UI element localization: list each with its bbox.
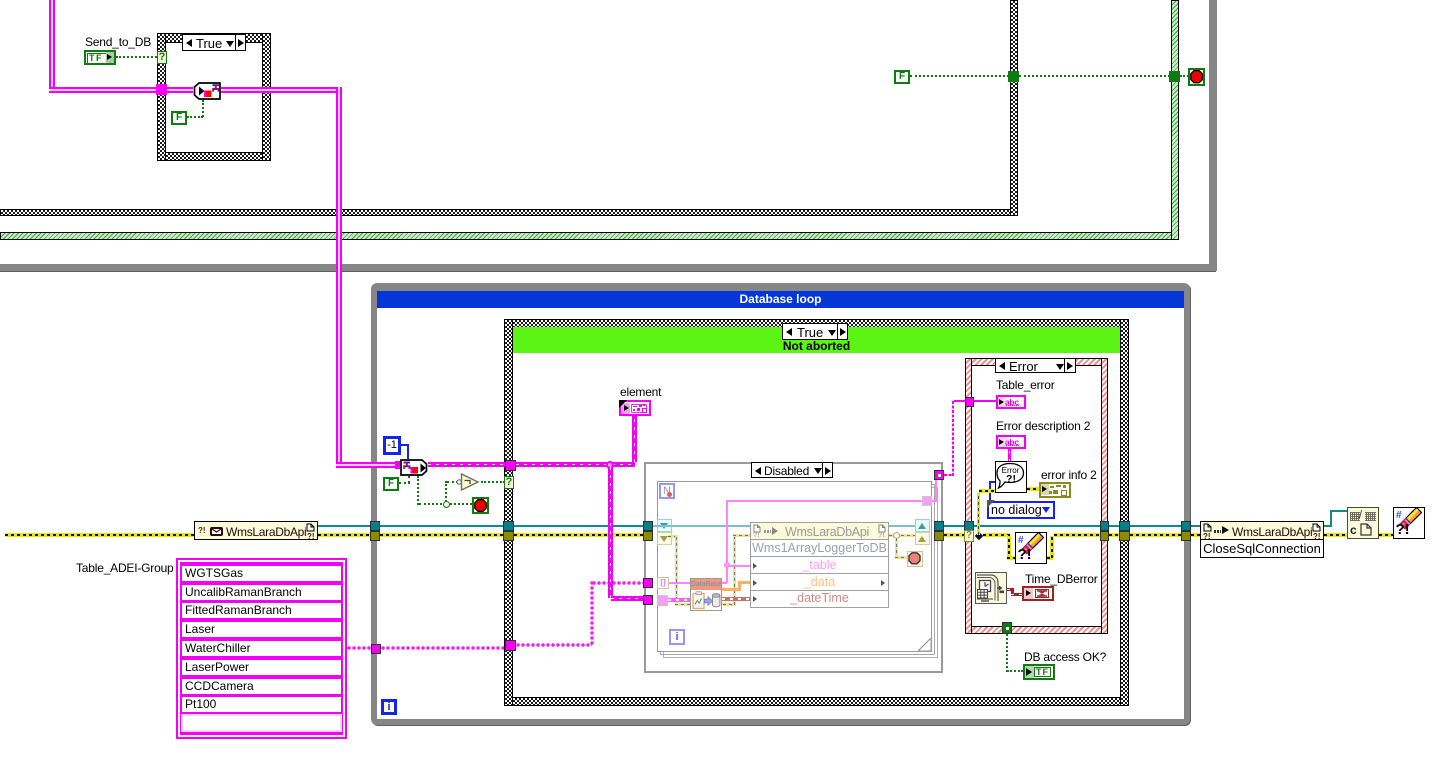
while loop Database loop border — [371, 283, 1190, 725]
label DB access OK? — [1024, 651, 1106, 663]
wire: yellow junction right, dips under clear errors — [983, 533, 1010, 537]
indicator Table_error (string abc) — [996, 395, 1026, 409]
indicator error info 2 (error cluster) — [1039, 482, 1071, 498]
wire: error cluster node to loop — [318, 533, 371, 537]
wire: queue refnum vertical down to database loop — [336, 87, 342, 468]
wire: string array dotted out of array — [347, 646, 372, 650]
tunnel: green on outer case border — [1008, 71, 1019, 82]
wire: teal loop->close node — [1191, 525, 1200, 527]
wire: green dotted to stop indicator — [450, 503, 472, 505]
wire: teal connection out of node — [318, 525, 371, 527]
indicator Time_DBerror (timestamp) — [1022, 586, 1054, 601]
iteration terminal i (disabled) — [669, 629, 685, 645]
array row UncalibRamanBranch — [182, 585, 341, 600]
label Table_error — [996, 379, 1055, 391]
wire: pale error down to stop indicator — [895, 538, 898, 559]
pass tunnel pink on inner frame — [657, 595, 668, 606]
array row WaterChiller — [182, 641, 341, 656]
junction pale yellow — [893, 532, 900, 539]
svg-text:?!: ?! — [1006, 473, 1016, 485]
wire: wavy table string array to icon — [669, 582, 690, 584]
case border top — [504, 319, 1129, 328]
wire: green dotted to stop terminal — [1180, 75, 1189, 77]
wire: green dotted F to icon — [399, 482, 410, 484]
array row Pt100 — [182, 697, 341, 712]
wire: yellow loop->close node — [1191, 533, 1200, 537]
wire: element cluster up to indicator — [632, 416, 637, 462]
tunnel: olive case right — [1119, 531, 1130, 541]
tunnel: queue refnum into small case — [156, 84, 167, 95]
error border right — [1101, 358, 1108, 634]
wire: maroon time to indicator — [1007, 588, 1014, 591]
disable selector label Disabled — [751, 462, 833, 478]
error selector terminal ? — [964, 530, 974, 542]
release queue VI icon — [193, 82, 221, 100]
iteration terminal i — [381, 699, 397, 715]
wire: salmon dateTime to subVI — [722, 597, 750, 601]
enum constant no dialog — [987, 501, 1055, 519]
node WmsLaraDbApi (open connection) — [194, 521, 318, 540]
wire: element cluster horizontal — [516, 462, 635, 467]
DataBase write icon — [690, 578, 722, 611]
boolean constant F (dequeue) — [383, 477, 399, 491]
boolean constant F (top-left case) — [171, 111, 187, 125]
wire: queue refnum tunnel to icon — [167, 87, 193, 93]
indicator element (cluster) — [619, 400, 651, 416]
wire: green dotted up to NOT gate — [445, 481, 447, 502]
wire: yellow up from junction — [977, 493, 980, 535]
error selector label — [995, 358, 1076, 373]
pink tunnel on inner frame right — [922, 496, 932, 506]
tunnel: green bottom of error struct — [1002, 622, 1012, 634]
array row CCDCamera — [182, 679, 341, 694]
wire: error cluster from left edge — [5, 533, 194, 537]
case border right — [1120, 319, 1129, 706]
wire: green dotted to case tunnel — [910, 75, 1009, 77]
green banner Not aborted — [513, 327, 1120, 353]
wire: element cluster to disabled structure — [611, 596, 645, 601]
tunnel: teal on loop left border — [370, 521, 380, 531]
green hatched loop bottom border — [0, 232, 1179, 240]
tunnel: teal case right — [1119, 521, 1130, 531]
case selector label True — [182, 34, 246, 51]
wire: green dotted case to loop tunnel — [1019, 75, 1170, 77]
junction pink — [724, 562, 730, 568]
svg-text:?!: ?! — [1018, 546, 1032, 562]
tunnel: magenta table_error on error border — [965, 397, 974, 407]
wire: element cluster out of dequeue — [428, 462, 506, 467]
indicator DB access OK? (TF) — [1023, 664, 1055, 680]
indexing tunnel [] on inner frame — [657, 577, 669, 589]
tunnel: olive on case left — [503, 531, 514, 541]
svg-text:?!: ?! — [1396, 521, 1410, 537]
tunnel: teal loop right — [1181, 521, 1191, 531]
wire: yellow handler to error info 2 — [1027, 487, 1039, 491]
Database loop title bar — [377, 291, 1184, 308]
junction green — [443, 501, 450, 508]
wire: pale error right of subVI — [889, 534, 916, 537]
array row Laser — [182, 622, 341, 637]
wire: magenta table_error out of disabled — [944, 474, 954, 476]
tunnel: green on green loop border — [1169, 71, 1180, 82]
wire: yellow free->clear errors — [1379, 533, 1393, 537]
wire: blue enum to handler — [989, 481, 995, 483]
pass tunnel teal up-arrow (right) — [915, 519, 930, 532]
tunnel: olive loop right — [1181, 531, 1191, 541]
label Time_DBerror — [1025, 573, 1098, 585]
outer case structure right border — [1010, 0, 1018, 216]
label Error description 2 — [996, 420, 1090, 432]
inner disabled frame (stacked) — [663, 487, 938, 658]
pass tunnel olive up-arrow (right) — [915, 532, 930, 545]
wire: yellow close->free — [1324, 533, 1347, 537]
wire: string array dotted inside case — [516, 643, 592, 647]
wire: wavy along top of subVI — [728, 500, 924, 502]
case selector terminal ? — [157, 51, 167, 64]
tunnel: string array (magenta) — [643, 578, 653, 588]
wire: teal close->free — [1324, 525, 1332, 527]
tunnel: olive on loop left border — [370, 531, 380, 541]
tunnel: teal on case left — [503, 521, 514, 531]
wire: wavy to _table — [728, 565, 750, 567]
wire: green dotted F to icon — [187, 116, 203, 118]
wire: pale teal right of subVI — [889, 525, 916, 527]
wire: teal case to disabled — [514, 525, 644, 527]
tunnel: teal on error border left — [964, 521, 974, 531]
pass tunnel teal arrow — [657, 519, 672, 532]
tunnel: olive disabled right — [934, 531, 944, 541]
corner fold on enum — [987, 500, 995, 508]
NOT gate — [455, 472, 481, 492]
label element — [620, 386, 661, 398]
grey outer loop bottom border — [0, 264, 1216, 272]
tunnel: olive error right — [1100, 531, 1109, 541]
error border bottom — [965, 626, 1108, 634]
wire: pale error around DataBase icon — [668, 535, 678, 538]
tunnel: teal disabled right — [934, 521, 944, 531]
tunnel: olive — [643, 531, 653, 541]
wire: green dotted TF to selector — [116, 56, 157, 58]
loop count terminal N — [659, 483, 675, 499]
clear errors VI icon (in error case) — [1015, 532, 1047, 564]
wire: pink wavy to outer tunnel — [932, 500, 938, 502]
array row empty (dimmed) — [181, 714, 342, 732]
wire: teal case->loop — [1130, 525, 1182, 527]
wire: queue refnum out of icon — [221, 87, 342, 93]
dequeue element VI icon — [400, 459, 428, 476]
tunnel: element cluster into case — [505, 460, 516, 471]
wire: magenta string down to error handler — [1008, 449, 1011, 462]
error border left — [965, 358, 972, 634]
wire: pale teal across disabled — [653, 525, 750, 527]
tunnel: magenta with dot (table out) — [934, 470, 944, 480]
svg-text:#: # — [1396, 510, 1402, 521]
label CloseSqlConnection — [1200, 539, 1324, 558]
wire: queue refnum horizontal into case — [49, 87, 157, 93]
tunnel: element cluster (magenta) — [643, 595, 653, 605]
array row WGTSGas — [182, 566, 341, 581]
stop indicator (aborted) — [472, 497, 489, 514]
free SQL object icon — [1347, 507, 1379, 539]
disable structure outer border — [644, 462, 943, 673]
wire: teal to case — [380, 525, 504, 527]
pass tunnel olive arrow — [657, 532, 672, 545]
stop indicator (error occurred) — [907, 551, 923, 567]
array row FittedRamanBranch — [182, 603, 341, 618]
wire: element cluster down — [608, 467, 613, 598]
wire: error to case — [380, 533, 504, 537]
error border top — [965, 358, 1108, 366]
numeric constant -1 — [383, 436, 401, 455]
junction magenta ring — [606, 461, 614, 469]
case selector label True — [782, 323, 848, 340]
wire: yellow case->loop — [1130, 533, 1182, 537]
wire: green dotted down to TF — [1006, 634, 1008, 672]
wire: orange data to subVI — [722, 588, 741, 591]
wire: green dotted NOT to case selector — [481, 481, 505, 483]
tunnel: teal — [643, 521, 653, 531]
array row LaserPower — [182, 660, 341, 675]
case border bottom — [504, 697, 1129, 706]
boolean constant F (top right) — [894, 70, 910, 84]
tunnel: string array into case — [505, 640, 516, 651]
label error info 2 — [1041, 469, 1097, 481]
wire: teal error->case — [1109, 525, 1120, 527]
error handler icon (Error ?!) — [995, 461, 1027, 493]
wire: blue timeout — [401, 444, 409, 446]
wire: magenta to Table_error — [974, 400, 996, 402]
grey outer loop right border — [1209, 0, 1217, 271]
wire: error to error struct — [944, 533, 964, 537]
wire: error case to disabled — [514, 533, 644, 537]
wire: queue into dequeue icon — [336, 462, 396, 468]
wire: table string up/over — [726, 500, 728, 583]
small case structure border — [157, 33, 271, 43]
boolean control Send_to_DB (TF) — [84, 50, 116, 65]
wire: pink dashed element data to icon — [668, 598, 690, 602]
tunnel: string array on loop left border — [371, 644, 381, 654]
indicator Error description 2 (string abc) — [996, 435, 1026, 449]
case border left — [504, 319, 513, 706]
label Table_ADEI-Group — [76, 562, 174, 574]
wire: yellow out of clear errors — [1047, 556, 1053, 560]
junction black on error wire — [975, 532, 983, 540]
wire: teal across error struct — [974, 525, 1101, 527]
wire: queue refnum vertical from top edge — [49, 0, 55, 93]
date/time icon — [975, 572, 1007, 604]
wire: green dotted status down — [417, 476, 419, 505]
tunnel: teal error right — [1100, 521, 1109, 531]
svg-text:#: # — [1018, 535, 1024, 546]
wire: teal to error struct — [944, 525, 965, 527]
wire: string array dotted to case — [381, 646, 506, 650]
case selector terminal ? — [504, 476, 514, 489]
array constant frame — [176, 558, 347, 739]
green hatched loop right border — [1171, 0, 1179, 240]
wire: yellow error->case — [1109, 533, 1120, 537]
outer case structure bottom border — [0, 209, 1018, 216]
folded corner of disabled frame — [918, 638, 932, 652]
label Send_to_DB — [85, 36, 151, 48]
clear errors VI icon (far right) — [1393, 507, 1425, 539]
node WmsLaraDbApi (close connection) — [1200, 521, 1324, 540]
stop button terminal (loop condition) — [1188, 68, 1205, 86]
